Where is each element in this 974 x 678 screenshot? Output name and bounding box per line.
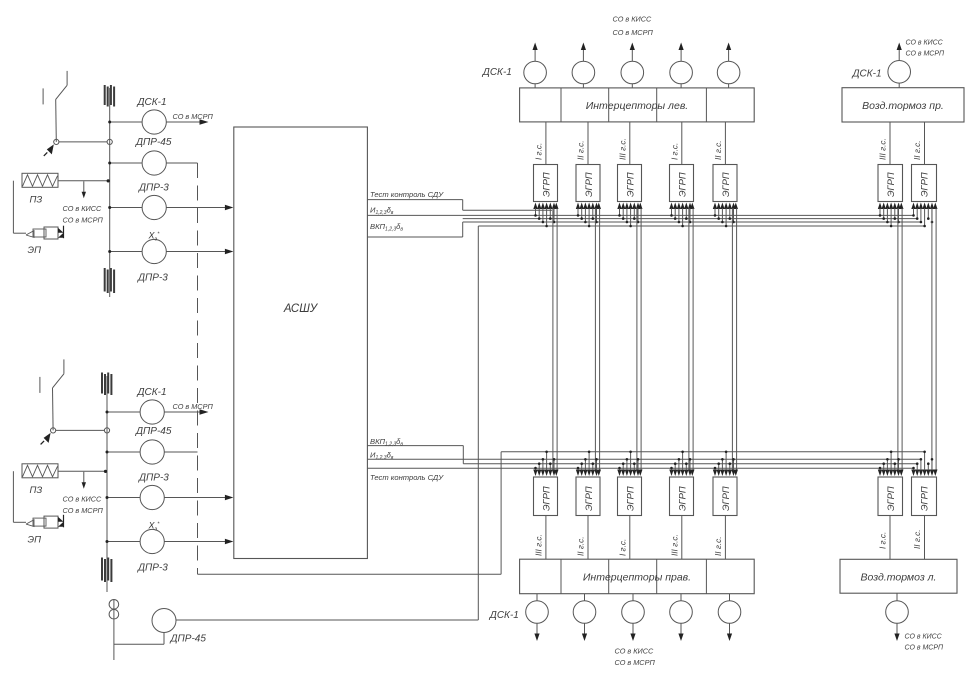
svg-text:II г.с.: II г.с. bbox=[577, 140, 586, 160]
hydraulic valve ЭГРП bottom #2 bbox=[576, 477, 600, 516]
svg-text:ЭГРП: ЭГРП bbox=[677, 172, 688, 197]
hydraulic valve ЭГРП top #5 bbox=[713, 165, 737, 202]
svg-text:СО в МСРП: СО в МСРП bbox=[906, 51, 946, 58]
hydraulic valve ЭГРП bottom #6 bbox=[878, 477, 903, 516]
svg-text:ЭГРП: ЭГРП bbox=[541, 486, 552, 511]
sensor circle interceptor left #4 bbox=[670, 61, 693, 84]
wire mech bus (lower) bbox=[501, 451, 924, 453]
hydraulic valve ЭГРП top #2 bbox=[576, 165, 600, 202]
wire pair ЭГРП top #6 to bottom bbox=[897, 208, 899, 470]
wire pair ЭГРП top #2 to bottom bbox=[594, 208, 596, 470]
signal arrows into ЭГРП top #7 bbox=[911, 203, 915, 210]
arrow down from air brake left sensor bbox=[896, 623, 898, 635]
wire stem from ЭГРП bottom #5 bbox=[724, 516, 726, 560]
sensor circle ДПР-3 bbox=[142, 195, 166, 219]
svg-text:СО в МСРП: СО в МСРП bbox=[615, 658, 656, 667]
svg-text:ЭГРП: ЭГРП bbox=[583, 172, 594, 197]
svg-text:II г.с.: II г.с. bbox=[913, 529, 922, 549]
sensor circle ДПР-3 bbox=[142, 239, 166, 263]
svg-text:ДПР-3: ДПР-3 bbox=[138, 183, 169, 194]
spring loader ПЗ bbox=[22, 173, 58, 187]
wire column to sensor row 2 bbox=[110, 162, 142, 164]
signal arrows into ЭГРП top #2 bbox=[576, 203, 580, 210]
wire 4th row to АСШУ bbox=[164, 541, 226, 543]
wire ДПР-45 output to linkage bbox=[164, 451, 197, 453]
hydraulic valve ЭГРП top #3 bbox=[618, 165, 642, 202]
wire stem to ЭГРП top #2 bbox=[587, 122, 589, 165]
wire ПЗ to column bbox=[58, 470, 107, 472]
arrow up from interceptor sensor #1 bbox=[534, 46, 536, 61]
wire ДПР-3 row to АСШУ bbox=[166, 207, 226, 209]
sensor circle ДСК-1 bbox=[140, 400, 164, 424]
arrow up from interceptor sensor #5 bbox=[728, 46, 730, 61]
wire pair ЭГРП top #4 to bottom bbox=[688, 208, 690, 470]
svg-text:II г.с.: II г.с. bbox=[714, 140, 723, 160]
wire pulley shaft bbox=[113, 600, 115, 661]
signal arrows into ЭГРП bottom #2 bbox=[576, 470, 580, 477]
sensor circle ДПР-45 (aft) bbox=[152, 609, 176, 633]
svg-text:II г.с.: II г.с. bbox=[714, 536, 723, 556]
sensor circle interceptor right #2 bbox=[573, 601, 596, 624]
sensor circle interceptor right #1 bbox=[526, 601, 549, 624]
sensor circle ДПР-3 bbox=[140, 529, 164, 553]
svg-text:ЭГРП: ЭГРП bbox=[919, 486, 930, 511]
hydraulic valve ЭГРП bottom #3 bbox=[618, 477, 642, 516]
svg-text:Интерцепторы прав.: Интерцепторы прав. bbox=[583, 572, 691, 584]
svg-text:ДСК-1: ДСК-1 bbox=[137, 97, 167, 108]
svg-text:СО в МСРП: СО в МСРП bbox=[613, 28, 654, 37]
svg-text:СО в КИСС: СО в КИСС bbox=[63, 494, 103, 503]
tap arrow to КИСС/МСРП bbox=[83, 472, 85, 483]
wire auxiliary bus (upper) bbox=[463, 218, 918, 220]
wire stem to ЭГРП top #6 bbox=[889, 122, 891, 165]
svg-text:ЭП: ЭП bbox=[28, 245, 42, 256]
svg-text:ЭГРП: ЭГРП bbox=[720, 172, 731, 197]
electric actuator ЭП bbox=[13, 471, 63, 528]
signal arrows into ЭГРП bottom #3 bbox=[617, 470, 621, 477]
signal arrows into ЭГРП top #1 bbox=[533, 203, 537, 210]
svg-text:Возд.тормоз пр.: Возд.тормоз пр. bbox=[862, 100, 944, 112]
svg-text:ЭГРП: ЭГРП bbox=[919, 172, 930, 197]
rail hatch upper bbox=[101, 373, 103, 394]
svg-text:II г.с.: II г.с. bbox=[913, 140, 922, 160]
wire Тест контроль СДУ (lower) bbox=[367, 467, 913, 469]
svg-text:ЭГРП: ЭГРП bbox=[885, 486, 896, 511]
rail hatch lower bbox=[101, 558, 103, 581]
svg-text:СО в КИСС: СО в КИСС bbox=[615, 647, 655, 656]
sensor circle air brake left bbox=[886, 601, 909, 624]
wire ДСК-1 output with arrow bbox=[164, 411, 204, 413]
svg-text:ЭГРП: ЭГРП bbox=[677, 486, 688, 511]
sensor circle ДПР-45 bbox=[142, 151, 166, 175]
wire sensor to pulley line bbox=[163, 633, 165, 645]
node circle on column bbox=[104, 428, 109, 433]
wire linkage lower run bbox=[198, 573, 502, 575]
svg-text:I г.с.: I г.с. bbox=[670, 143, 679, 160]
sensor circle ДПР-3 bbox=[140, 485, 164, 509]
wire column to sensor row 3 bbox=[110, 207, 142, 209]
wire ДПР-45 aft sensor run bbox=[176, 619, 478, 621]
node circle on column bbox=[107, 139, 112, 144]
svg-text:ЭГРП: ЭГРП bbox=[885, 172, 896, 197]
wire pair ЭГРП top #7 to bottom bbox=[931, 208, 933, 470]
box Возд тормоз л. bbox=[840, 559, 957, 593]
mechanical column wire bbox=[106, 376, 108, 592]
wire column to sensor row 1 bbox=[107, 411, 140, 413]
rail hatch upper bbox=[104, 85, 106, 105]
wire pair ЭГРП top #3 to bottom bbox=[636, 208, 638, 470]
wire ПЗ to column bbox=[58, 180, 110, 182]
signal arrows into ЭГРП top #6 bbox=[878, 203, 882, 210]
wire stem to ЭГРП top #7 bbox=[924, 122, 926, 165]
box Интерцепторы лев. bbox=[520, 88, 755, 122]
wire stem to ЭГРП top #4 bbox=[681, 122, 683, 165]
svg-text:СО в КИСС: СО в КИСС bbox=[63, 204, 103, 213]
hydraulic valve ЭГРП top #6 bbox=[878, 165, 903, 202]
svg-text:ЭГРП: ЭГРП bbox=[583, 486, 594, 511]
pivot node circle bbox=[51, 428, 56, 433]
hydraulic valve ЭГРП bottom #5 bbox=[713, 477, 737, 516]
signal arrows into ЭГРП bottom #5 bbox=[713, 470, 717, 477]
svg-text:ДПР-45: ДПР-45 bbox=[135, 137, 172, 148]
wire И123 δв bus (upper) bbox=[367, 214, 913, 216]
svg-text:ДПР-3: ДПР-3 bbox=[137, 563, 168, 574]
svg-text:ЭГРП: ЭГРП bbox=[625, 486, 636, 511]
wire pivot to column bbox=[56, 429, 105, 431]
control column lever bbox=[40, 359, 64, 430]
svg-text:Тест контроль СДУ: Тест контроль СДУ bbox=[370, 473, 444, 482]
svg-text:ЭГРП: ЭГРП bbox=[720, 486, 731, 511]
electric actuator ЭП bbox=[13, 181, 63, 239]
signal arrows into ЭГРП top #5 bbox=[713, 203, 717, 210]
sensor circle interceptor left #1 bbox=[524, 61, 547, 84]
dashed linkage from ДПР-45 sensors bbox=[197, 163, 199, 574]
rail hatch lower bbox=[104, 268, 106, 292]
box Интерцепторы прав. bbox=[520, 559, 755, 594]
computer unit АСШУ bbox=[234, 127, 368, 559]
arrow down from interceptor sensor #5 bbox=[729, 623, 731, 635]
sensor circle ДПР-45 bbox=[140, 440, 164, 464]
arrow up from interceptor sensor #4 bbox=[680, 46, 682, 61]
svg-text:ДПР-3: ДПР-3 bbox=[137, 273, 168, 284]
sensor circle interceptor right #4 bbox=[670, 601, 693, 624]
svg-text:III г.с.: III г.с. bbox=[618, 138, 627, 160]
arrow up from interceptor sensor #2 bbox=[582, 46, 584, 61]
signal arrows into ЭГРП bottom #6 bbox=[878, 470, 882, 477]
wire mech bus (upper) bbox=[478, 225, 924, 227]
box Возд тормоз пр. bbox=[842, 88, 964, 122]
svg-text:ПЗ: ПЗ bbox=[30, 194, 43, 205]
wire riser to upper mech bus bbox=[477, 226, 479, 620]
wire column to sensor row 4 bbox=[107, 541, 140, 543]
svg-text:ЭГРП: ЭГРП bbox=[541, 172, 552, 197]
svg-text:I г.с.: I г.с. bbox=[534, 143, 543, 160]
wire stem from ЭГРП bottom #7 bbox=[924, 516, 926, 560]
svg-text:Тест контроль СДУ: Тест контроль СДУ bbox=[370, 190, 444, 199]
wire column to sensor row 4 bbox=[110, 251, 142, 253]
wire stem from ЭГРП bottom #4 bbox=[681, 516, 683, 560]
mechanical column wire bbox=[109, 88, 111, 297]
signal arrows into ЭГРП bottom #7 bbox=[911, 470, 915, 477]
wire stem to ЭГРП top #1 bbox=[545, 122, 547, 165]
sensor circle interceptor right #3 bbox=[622, 601, 645, 624]
svg-text:СО в МСРП: СО в МСРП bbox=[173, 402, 214, 411]
svg-text:ДПР-3: ДПР-3 bbox=[138, 473, 169, 484]
wire Тест контроль СДУ (upper) bbox=[367, 199, 462, 201]
svg-text:III г.с.: III г.с. bbox=[534, 534, 543, 556]
wire stem from ЭГРП bottom #2 bbox=[587, 516, 589, 560]
svg-text:ДПР-45: ДПР-45 bbox=[135, 426, 172, 437]
wire stem from ЭГРП bottom #1 bbox=[545, 516, 547, 560]
svg-text:СО в КИСС: СО в КИСС bbox=[906, 40, 944, 47]
svg-text:Возд.тормоз л.: Возд.тормоз л. bbox=[861, 572, 937, 584]
hydraulic valve ЭГРП top #4 bbox=[670, 165, 694, 202]
hydraulic valve ЭГРП top #7 bbox=[912, 165, 937, 202]
sensor circle ДСК-1 bbox=[142, 110, 166, 134]
sensor circle interceptor right #5 bbox=[718, 601, 741, 624]
wire 4th row to АСШУ bbox=[166, 251, 226, 253]
svg-text:СО в КИСС: СО в КИСС bbox=[905, 634, 943, 641]
svg-text:III г.с.: III г.с. bbox=[879, 138, 888, 160]
wire column to sensor row 3 bbox=[107, 497, 140, 499]
control column lever bbox=[43, 71, 67, 142]
signal arrows into ЭГРП top #3 bbox=[617, 203, 621, 210]
arrow down from interceptor sensor #2 bbox=[584, 623, 586, 635]
tap arrow to КИСС/МСРП bbox=[83, 181, 85, 192]
wire pair ЭГРП top #1 to bottom bbox=[552, 208, 554, 470]
wire column to sensor row 1 bbox=[110, 121, 142, 123]
svg-text:СО в МСРП: СО в МСРП bbox=[905, 645, 945, 652]
arrow up from air brake sensor bbox=[898, 46, 900, 61]
svg-text:ДПР-45: ДПР-45 bbox=[170, 634, 207, 645]
wire ВКП123 δв (upper) bbox=[367, 236, 462, 238]
svg-text:ДСК-1: ДСК-1 bbox=[137, 387, 167, 398]
signal arrows into ЭГРП bottom #4 bbox=[669, 470, 673, 477]
sensor circle interceptor left #2 bbox=[572, 61, 595, 84]
wire pivot to column bbox=[59, 141, 107, 143]
svg-text:СО в МСРП: СО в МСРП bbox=[173, 112, 214, 121]
svg-text:ДСК-1: ДСК-1 bbox=[489, 610, 519, 621]
wire ДСК-1 output with arrow bbox=[166, 121, 204, 123]
svg-text:III г.с.: III г.с. bbox=[670, 534, 679, 556]
svg-text:СО в МСРП: СО в МСРП bbox=[63, 215, 104, 224]
svg-text:I г.с.: I г.с. bbox=[879, 532, 888, 549]
svg-text:ЭГРП: ЭГРП bbox=[625, 172, 636, 197]
hydraulic valve ЭГРП bottom #4 bbox=[670, 477, 694, 516]
spring loader ПЗ bbox=[22, 464, 58, 478]
wire column to sensor row 2 bbox=[107, 451, 140, 453]
cable pulleys bbox=[109, 600, 119, 610]
svg-text:I г.с.: I г.с. bbox=[618, 539, 627, 556]
svg-text:II г.с.: II г.с. bbox=[577, 536, 586, 556]
pivot hinge symbol bbox=[44, 433, 51, 443]
wire И123 δв bus (lower) bbox=[367, 458, 921, 460]
wire stem from ЭГРП bottom #6 bbox=[889, 516, 891, 560]
svg-text:СО в КИСС: СО в КИСС bbox=[613, 15, 653, 24]
wire ДПР-45 output to linkage bbox=[166, 162, 197, 164]
hydraulic valve ЭГРП top #1 bbox=[534, 165, 558, 202]
svg-text:АСШУ: АСШУ bbox=[283, 303, 319, 315]
sensor circle interceptor left #5 bbox=[717, 61, 740, 84]
wire stem from ЭГРП bottom #3 bbox=[629, 516, 631, 560]
arrow down from interceptor sensor #4 bbox=[680, 623, 682, 635]
hydraulic valve ЭГРП bottom #1 bbox=[534, 477, 558, 516]
pivot hinge symbol bbox=[47, 144, 54, 154]
wire stem to ЭГРП top #5 bbox=[724, 122, 726, 165]
arrow up from interceptor sensor #3 bbox=[631, 46, 633, 61]
svg-text:Интерцепторы лев.: Интерцепторы лев. bbox=[586, 100, 688, 112]
wire stem to ЭГРП top #3 bbox=[629, 122, 631, 165]
svg-text:ПЗ: ПЗ bbox=[30, 485, 43, 496]
sensor circle air brake right bbox=[888, 61, 911, 84]
svg-text:ДСК-1: ДСК-1 bbox=[852, 69, 882, 80]
wire pair ЭГРП top #5 to bottom bbox=[731, 208, 733, 470]
sensor circle interceptor left #3 bbox=[621, 61, 644, 84]
pivot node circle bbox=[54, 139, 59, 144]
svg-text:СО в МСРП: СО в МСРП bbox=[63, 506, 104, 515]
wire ДПР-3 row to АСШУ bbox=[164, 497, 226, 499]
svg-text:ЭП: ЭП bbox=[28, 534, 42, 545]
wire linkage riser to upper-right bus bbox=[500, 452, 502, 575]
svg-text:ДСК-1: ДСК-1 bbox=[482, 67, 512, 78]
signal arrows into ЭГРП top #4 bbox=[669, 203, 673, 210]
arrow down from interceptor sensor #1 bbox=[536, 623, 538, 635]
hydraulic valve ЭГРП bottom #7 bbox=[912, 477, 937, 516]
arrow down from interceptor sensor #3 bbox=[632, 623, 634, 635]
signal arrows into ЭГРП bottom #1 bbox=[533, 470, 537, 477]
wire ВКП123 δв (lower) bbox=[367, 445, 463, 447]
